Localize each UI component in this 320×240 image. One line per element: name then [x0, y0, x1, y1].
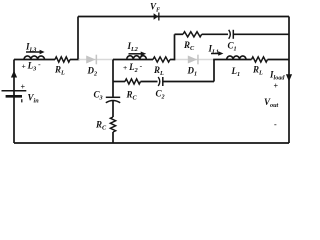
- main branch wire seg 4: [170, 59, 175, 61]
- resistor RC (damping, vertical): [110, 117, 115, 132]
- wire: right rail: [288, 17, 290, 144]
- capacitor C2: [158, 77, 160, 86]
- main branch wire seg 6: [268, 59, 290, 61]
- node: phase-2 junction vertical: [112, 60, 114, 97]
- battery Vin short plate: [6, 95, 22, 98]
- resistor RC (upper): [183, 32, 202, 37]
- capacitor C1: [229, 30, 231, 39]
- svg-text:-: -: [274, 120, 277, 129]
- wire: lower RC-C2 branch from node1: [113, 81, 125, 83]
- wire (grey) through D1: [175, 59, 215, 61]
- arrow IL2: [129, 53, 142, 55]
- outer top wire: [78, 16, 289, 18]
- diode VF on top rail: [154, 13, 159, 19]
- arrow input current (up) on left rail: [11, 71, 17, 78]
- resistor RL (input): [55, 57, 70, 62]
- upper branch wire seg 2: [202, 33, 228, 35]
- inductor L3: [24, 56, 44, 60]
- wire (grey) through D2: [79, 59, 114, 61]
- main branch wire seg 2: [70, 59, 80, 61]
- main branch wire seg 1 (under L3): [14, 59, 55, 61]
- upper branch wire seg 1: [175, 33, 184, 35]
- wire below C3: [112, 101, 114, 117]
- capacitor C3 curved plate: [106, 101, 120, 103]
- lower branch wire seg 3: [163, 81, 214, 83]
- inductor L1: [227, 56, 246, 60]
- arrow IL3: [26, 51, 40, 53]
- label - tick (battery): [21, 99, 23, 102]
- main branch wire seg 5 (under L1): [213, 59, 251, 61]
- diode D1 (inactive, grey): [188, 56, 197, 64]
- wire: bottom rail: [14, 142, 289, 144]
- svg-text:+: +: [274, 82, 279, 91]
- resistor RL (output): [252, 57, 268, 62]
- wire: lower branch up to node2: [213, 60, 215, 82]
- lower branch wire seg 2: [141, 81, 158, 83]
- svg-text:+: +: [21, 83, 26, 92]
- wire: snubber branch up from node after RL2: [174, 34, 176, 60]
- inductor L2: [127, 56, 147, 60]
- arrow Iload (down) on right rail: [286, 74, 292, 81]
- wire: left rail: [13, 60, 15, 144]
- diode D2 (inactive, grey): [86, 56, 95, 64]
- wire: junction to top rail: [77, 17, 79, 60]
- wire RC to bottom rail: [112, 132, 114, 143]
- upper branch wire seg 3: [233, 33, 289, 35]
- capacitor C3 flat plate: [106, 96, 120, 98]
- resistor RL (phase 2): [153, 57, 170, 62]
- arrow IL1: [211, 53, 219, 55]
- battery Vin long plate: [2, 90, 27, 92]
- resistor RC (lower): [125, 79, 141, 84]
- main branch wire seg 3 (under L2): [113, 59, 153, 61]
